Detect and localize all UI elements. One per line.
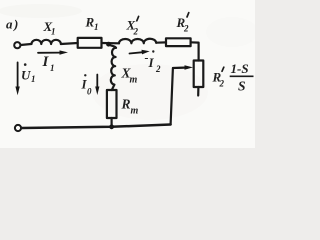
svg-text:1: 1 bbox=[31, 74, 36, 84]
svg-text:a): a) bbox=[6, 17, 20, 32]
svg-text:2: 2 bbox=[219, 79, 225, 89]
svg-text:m: m bbox=[130, 75, 138, 86]
svg-text:S: S bbox=[238, 79, 246, 94]
svg-text:I: I bbox=[148, 55, 155, 70]
svg-text:R: R bbox=[121, 97, 131, 112]
svg-text:0: 0 bbox=[87, 87, 92, 97]
svg-text:2: 2 bbox=[155, 64, 161, 74]
svg-text:I: I bbox=[42, 54, 50, 70]
svg-text:U: U bbox=[21, 68, 31, 83]
svg-text:1-S: 1-S bbox=[231, 61, 249, 76]
svg-text:R: R bbox=[85, 15, 95, 30]
svg-text:1: 1 bbox=[50, 63, 55, 73]
svg-text:2: 2 bbox=[183, 24, 189, 34]
svg-text:m: m bbox=[131, 106, 139, 117]
svg-text:1: 1 bbox=[94, 22, 99, 32]
svg-text:1: 1 bbox=[51, 27, 56, 37]
svg-text:2: 2 bbox=[133, 27, 139, 37]
